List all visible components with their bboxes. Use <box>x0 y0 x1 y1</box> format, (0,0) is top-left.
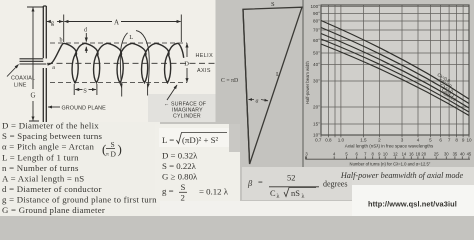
svg-text:1.5: 1.5 <box>360 138 367 143</box>
svg-text:AXIS: AXIS <box>197 68 211 74</box>
dimension G (ground plane diameter) <box>27 7 43 121</box>
svg-text:D: D <box>184 60 189 67</box>
svg-text:45: 45 <box>467 151 472 156</box>
dimension L (length of one turn) arc <box>136 31 149 88</box>
beamwidth curves C=0.8..1.2 <box>321 21 469 116</box>
svg-text:100°: 100° <box>310 4 320 9</box>
dimension S (spacing between turns) <box>73 84 75 95</box>
svg-text:A: A <box>114 19 119 27</box>
svg-text:7: 7 <box>448 138 451 143</box>
svg-text:90°: 90° <box>313 11 320 16</box>
surface of imaginary cylinder label + leader <box>167 85 177 100</box>
separator line between triangle and chart panels <box>302 0 304 167</box>
svg-text:D: D <box>111 150 117 159</box>
svg-text:C: C <box>270 189 276 198</box>
dimension A (axial length) with end ticks <box>63 15 65 43</box>
svg-text:a: a <box>52 65 55 71</box>
dimension d (conductor diameter) <box>85 33 87 42</box>
coaxial line feed <box>20 59 47 64</box>
imaginary cylinder top dashed line <box>50 42 187 44</box>
svg-text:D = Diameter of the helix: D = Diameter of the helix <box>2 121 99 131</box>
svg-text:λ: λ <box>277 194 280 200</box>
svg-text:14: 14 <box>402 151 407 156</box>
chart grid horizontal lines <box>321 7 469 125</box>
bottom white strip <box>160 201 474 216</box>
svg-text:0.7: 0.7 <box>315 138 322 143</box>
svg-text:0.8: 0.8 <box>325 138 332 143</box>
bottom-right white area <box>352 184 474 216</box>
svg-text:70°: 70° <box>313 28 320 33</box>
svg-text:S: S <box>271 1 275 8</box>
svg-text:15°: 15° <box>313 122 320 127</box>
x axis ticks below <box>321 135 469 137</box>
svg-text:Half-power beamwidth of axial: Half-power beamwidth of axial mode <box>340 171 464 180</box>
svg-text:8: 8 <box>455 138 458 143</box>
svg-text:2: 2 <box>181 193 185 203</box>
svg-text:(πD)² + S²: (πD)² + S² <box>182 135 219 145</box>
svg-text:g =: g = <box>162 186 174 196</box>
svg-text:30°: 30° <box>313 79 320 84</box>
svg-text:g = Distance of ground plane t: g = Distance of ground plane to first tu… <box>2 195 157 205</box>
svg-text:Number of turns (n) for Cλ=1.0: Number of turns (n) for Cλ=1.0 and α=12.… <box>350 162 431 167</box>
svg-text:C = πD: C = πD <box>221 78 238 84</box>
svg-text:http://www.qsl.net/va3iul: http://www.qsl.net/va3iul <box>368 200 457 209</box>
svg-text:18: 18 <box>416 151 421 156</box>
svg-text:20°: 20° <box>313 105 320 110</box>
svg-text:d: d <box>84 28 87 34</box>
svg-text:10: 10 <box>383 151 388 156</box>
imaginary cylinder bottom dashed line <box>50 82 187 84</box>
svg-text:π: π <box>106 152 109 158</box>
svg-text:6: 6 <box>439 138 442 143</box>
svg-text:): ) <box>118 142 122 157</box>
svg-text:GROUND PLANE: GROUND PLANE <box>62 106 107 112</box>
svg-text:80°: 80° <box>313 19 320 24</box>
svg-text:G = Ground plane diameter: G = Ground plane diameter <box>2 205 105 215</box>
svg-text:A = Axial length = nS: A = Axial length = nS <box>2 173 84 183</box>
svg-text:n = Number of turns: n = Number of turns <box>2 163 79 173</box>
unrolled-turn triangle <box>243 7 302 164</box>
svg-text:a: a <box>256 98 259 104</box>
svg-text:20: 20 <box>421 151 426 156</box>
svg-text:G ≥ 0.80λ: G ≥ 0.80λ <box>162 171 198 181</box>
left diagram white panel <box>0 0 216 122</box>
svg-text:12: 12 <box>393 151 398 156</box>
svg-text:10: 10 <box>466 138 472 143</box>
svg-text:S: S <box>83 87 87 94</box>
gray notch top-right of formula panel <box>229 124 240 152</box>
svg-text:λ: λ <box>302 194 305 200</box>
chart plot background <box>321 5 469 135</box>
ground plane (edge view) <box>43 6 46 122</box>
svg-text:β: β <box>247 179 253 188</box>
chart grid vertical lines <box>321 5 469 135</box>
svg-text:40: 40 <box>460 151 465 156</box>
light strip under chart <box>352 167 474 185</box>
svg-text:3: 3 <box>401 138 404 143</box>
svg-text:30: 30 <box>444 151 449 156</box>
svg-text:Axial length (nSλ) in free spa: Axial length (nSλ) in free space wavelen… <box>345 144 434 149</box>
svg-text:4: 4 <box>417 138 420 143</box>
svg-text:2: 2 <box>378 138 381 143</box>
svg-text:α = Pitch angle = Arctan: α = Pitch angle = Arctan <box>2 142 94 152</box>
svg-text:S: S <box>181 182 186 192</box>
formulas white panel <box>155 124 240 207</box>
svg-text:16: 16 <box>409 151 414 156</box>
helix wire <box>48 43 184 83</box>
svg-text:CYLINDER: CYLINDER <box>173 114 201 120</box>
chart axes box <box>321 5 469 135</box>
svg-text:S = 0.22λ: S = 0.22λ <box>162 161 197 171</box>
svg-text:35: 35 <box>453 151 458 156</box>
svg-text:L = Length of 1 turn: L = Length of 1 turn <box>2 152 79 162</box>
svg-text:52: 52 <box>287 174 295 183</box>
svg-text:d = Diameter of conductor: d = Diameter of conductor <box>2 184 102 194</box>
ground plane label + leader <box>48 106 60 108</box>
svg-text:9: 9 <box>462 138 465 143</box>
dimension g (ground plane to first turn) <box>47 21 50 23</box>
svg-text:40°: 40° <box>313 62 320 67</box>
beta formula light panel <box>242 167 352 200</box>
svg-text:25: 25 <box>434 151 439 156</box>
svg-text:D = 0.32λ: D = 0.32λ <box>162 151 198 161</box>
svg-text:1.0: 1.0 <box>338 138 345 143</box>
svg-text:Half-power beam width: Half-power beam width <box>305 61 310 104</box>
svg-text:5: 5 <box>429 138 432 143</box>
svg-text:L: L <box>276 71 280 78</box>
helix axis dash-dot line <box>47 62 218 64</box>
dimension D (helix diameter) <box>186 43 188 57</box>
gray wash lower-right of diagram panel <box>148 94 216 122</box>
svg-text:degrees: degrees <box>323 180 347 189</box>
angle alpha mark <box>249 99 255 101</box>
svg-text:50°: 50° <box>313 51 320 56</box>
number-of-turns auxiliary scale <box>306 156 471 159</box>
svg-text:COAXIAL: COAXIAL <box>11 76 35 82</box>
svg-text:LINE: LINE <box>14 83 27 89</box>
definitions white panel <box>0 122 160 216</box>
svg-text:= 0.12 λ: = 0.12 λ <box>199 187 229 197</box>
svg-text:60°: 60° <box>313 38 320 43</box>
svg-text:L =: L = <box>162 135 174 145</box>
svg-text:G: G <box>31 92 36 100</box>
white box behind L formula <box>159 128 230 147</box>
svg-text:HELIX: HELIX <box>196 53 214 59</box>
svg-text:=: = <box>258 178 263 187</box>
svg-text:nS: nS <box>291 189 300 198</box>
coaxial line label + leader arrow <box>7 65 19 77</box>
svg-text:S: S <box>111 140 115 149</box>
svg-text:L: L <box>129 34 133 41</box>
svg-text:S = Spacing between turns: S = Spacing between turns <box>2 131 102 141</box>
